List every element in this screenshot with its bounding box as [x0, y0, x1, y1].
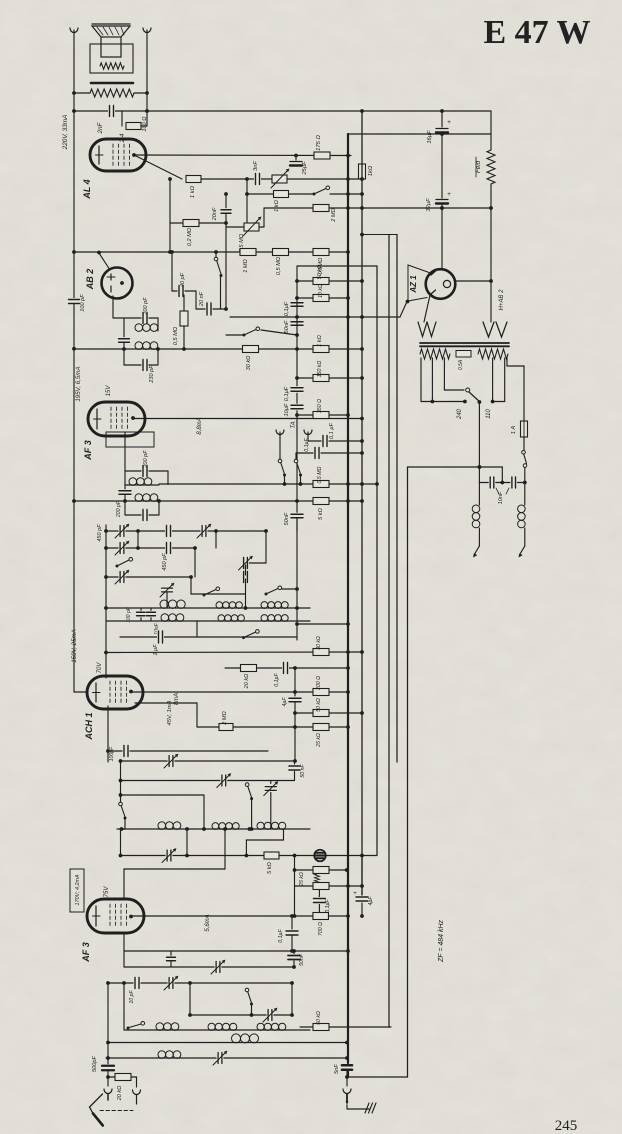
svg-text:240: 240	[457, 408, 463, 420]
zigzag link	[315, 874, 320, 883]
svg-text:25 kΩ: 25 kΩ	[299, 872, 305, 887]
svg-text:15V: 15V	[106, 385, 112, 397]
svg-text:100 pF: 100 pF	[126, 606, 132, 623]
wire row y298	[297, 297, 348, 299]
svg-text:195V, 6,5mA: 195V, 6,5mA	[75, 366, 82, 401]
tuner3 switch horizontal	[123, 983, 125, 1030]
tuner2 switch x247	[245, 783, 249, 787]
svg-text:4µF: 4µF	[368, 896, 374, 906]
capacitor 4µF b	[361, 856, 363, 917]
bus x362	[361, 111, 363, 895]
svg-text:5 kΩ: 5 kΩ	[318, 507, 324, 519]
wire row y967	[124, 966, 294, 968]
capacitor 25µF electrolytic	[295, 156, 297, 161]
resistor 100 Ω	[121, 111, 123, 126]
svg-text:2 MΩ: 2 MΩ	[331, 207, 337, 222]
capacitor 50nF d	[290, 513, 304, 520]
wire row y951	[124, 950, 348, 952]
resistor 150 kΩ	[313, 375, 329, 382]
svg-text:AF 3: AF 3	[83, 440, 93, 461]
resistor 20 kΩ	[241, 665, 257, 672]
resistor 1 kΩ c	[313, 346, 329, 353]
resistor 25 kΩ b	[313, 867, 329, 874]
wire row y484	[159, 483, 377, 485]
svg-text:AZ 1: AZ 1	[409, 275, 418, 294]
svg-text:50 nF: 50 nF	[300, 764, 306, 778]
svg-text:50 kΩ: 50 kΩ	[316, 698, 322, 712]
mains filter choke left	[478, 483, 480, 506]
resistor 1 kΩ row194	[274, 191, 289, 198]
wire row y335 with switch	[226, 334, 244, 336]
capacitor 0,1 µF TA1	[307, 432, 309, 441]
variable cap x270	[270, 781, 272, 784]
svg-text:5nF: 5nF	[334, 1064, 340, 1074]
coil IF1b on row	[135, 342, 143, 350]
svg-text:200 pF: 200 pF	[116, 500, 122, 518]
capacitor osc pad	[242, 571, 249, 584]
svg-text:50 kΩ: 50 kΩ	[317, 264, 323, 280]
capacitor 10nF a	[489, 476, 496, 489]
svg-text:200 pF: 200 pF	[143, 297, 149, 316]
tube AB2	[102, 268, 133, 299]
wire row y870	[295, 869, 347, 871]
capacitor 4µF	[294, 668, 296, 696]
capacitor 2nF	[108, 105, 115, 118]
svg-text:1 A: 1 A	[511, 426, 517, 435]
resistor 700 Ω	[313, 913, 329, 920]
svg-text:0,1µF: 0,1µF	[284, 301, 290, 316]
capacitor 40 pF	[171, 252, 173, 291]
bus x297 upper	[296, 266, 298, 640]
coil C feed link	[283, 829, 285, 840]
tuner1 coil row y608	[106, 607, 310, 609]
capacitor 3nF	[254, 173, 261, 186]
capacitor 0,1µF on x297	[290, 301, 304, 308]
left box edge lower	[73, 501, 75, 692]
wire row y252 screen bus	[74, 251, 348, 253]
resistor 200 Ω	[313, 689, 329, 696]
svg-text:50nF: 50nF	[284, 320, 290, 333]
capacitor 0,1µF g	[318, 890, 320, 917]
taps 110 side	[492, 358, 494, 402]
wire row y349 grid bus	[74, 348, 362, 350]
wire row y1043	[108, 1042, 347, 1044]
wire box top y134	[348, 133, 491, 135]
capacitor 10µF	[290, 404, 304, 411]
capacitor 50nF e	[294, 761, 296, 765]
tuner2 row y855	[121, 855, 378, 857]
mains filter choke right	[524, 483, 526, 506]
capacitor 32µF	[441, 134, 443, 198]
svg-text:+: +	[447, 119, 451, 126]
capacitor 1 µF osc	[120, 636, 297, 638]
resistor 20 kΩ b	[108, 1076, 115, 1078]
resistor 0,5 MΩ vertical	[183, 295, 185, 311]
resistor hum-bucking coil	[90, 89, 134, 97]
svg-text:150V, 25mA: 150V, 25mA	[71, 629, 78, 663]
variable cap y1058	[217, 1052, 224, 1065]
mains voltage taps	[420, 358, 422, 402]
svg-text:50nF: 50nF	[284, 512, 290, 525]
coil y1058	[158, 1051, 166, 1059]
svg-text:+: +	[353, 891, 357, 897]
svg-text:220V, 33mA: 220V, 33mA	[62, 115, 69, 151]
variable cap y590	[161, 587, 174, 594]
svg-text:0,5 MΩ: 0,5 MΩ	[173, 326, 179, 345]
heater line	[230, 316, 400, 318]
tuner3 row y1015	[190, 1014, 292, 1016]
wire row y179	[201, 178, 362, 180]
tuner3 switch x247	[245, 988, 249, 992]
wire mains center	[478, 402, 480, 483]
svg-text:2 MΩ: 2 MΩ	[222, 710, 228, 725]
svg-text:1 kΩ: 1 kΩ	[317, 334, 323, 346]
svg-text:10µF: 10µF	[284, 403, 290, 416]
coil IF1a	[123, 318, 125, 338]
resistor 0,2 MΩ	[183, 220, 199, 227]
ground symbol	[365, 1103, 369, 1113]
wire ACH1 anode y692	[131, 691, 348, 693]
speaker LS	[92, 26, 130, 37]
wire row y624 osc	[297, 623, 348, 625]
svg-text:0,1µF: 0,1µF	[284, 386, 290, 401]
TA input hooks	[276, 430, 284, 435]
switch TA2	[295, 453, 297, 459]
svg-text:0,1 µF: 0,1 µF	[329, 422, 335, 439]
svg-text:500pF: 500pF	[92, 1055, 98, 1071]
resistor 50 kΩ b	[313, 710, 329, 717]
svg-text:ZF = 484 kHz: ZF = 484 kHz	[438, 919, 445, 963]
AF3 IF transformer	[124, 432, 126, 471]
tuner1 row y594	[191, 593, 246, 595]
tuner3 vertical x292	[291, 983, 293, 1015]
switch TA1	[279, 432, 281, 459]
tuner1 switch y563	[116, 565, 119, 568]
resistor 10 kΩ	[313, 295, 329, 302]
svg-text:ACH 1: ACH 1	[84, 712, 94, 740]
heater winding V left	[418, 322, 427, 337]
wire AL4 anode line	[134, 154, 351, 157]
wire row y1027	[300, 1026, 391, 1028]
capacitor 100 pF in left bus	[73, 111, 75, 299]
svg-text:100 Ω: 100 Ω	[142, 116, 148, 132]
svg-text:700 Ω: 700 Ω	[318, 922, 324, 936]
svg-text:TA: TA	[291, 421, 297, 428]
trimmer 0,5 MΩ	[226, 226, 244, 228]
resistor Feld field coil	[490, 111, 492, 150]
wire row y652	[106, 651, 362, 654]
resistor 5 kΩ b	[264, 852, 279, 859]
resistor 50 kΩ	[313, 278, 329, 285]
svg-text:40 pF: 40 pF	[180, 272, 186, 287]
tuner1 row C y577	[106, 576, 191, 578]
wire row y983	[108, 982, 292, 984]
resistor 25 kΩ	[313, 724, 329, 731]
resistor 2 MΩ	[313, 205, 329, 212]
coil wide y1043	[232, 1034, 241, 1043]
label AZ1 flag	[408, 265, 429, 301]
capacitor series IF1	[118, 337, 131, 344]
wire rows y360-430 right block	[297, 377, 362, 379]
svg-text:20nF: 20nF	[212, 207, 218, 221]
resistor 30 kΩ b	[313, 649, 329, 656]
tuner1 row B y548	[106, 547, 195, 549]
tuner2 vertical x187	[186, 829, 188, 855]
capacitor 20 nF b	[195, 291, 197, 309]
mains switch	[522, 451, 526, 455]
svg-text:170V; 4,2mA: 170V; 4,2mA	[75, 874, 81, 905]
resistor 50 kΩ c	[313, 883, 329, 890]
wire row y208	[264, 207, 491, 209]
bus x295 mid	[294, 727, 296, 761]
wire AZ1 anode right	[455, 280, 491, 282]
capacitor 16µF	[441, 111, 443, 127]
wire AF3 anode y418	[133, 418, 362, 420]
svg-text:AL 4: AL 4	[82, 179, 92, 199]
wire AZ1 plate	[441, 208, 443, 269]
svg-text:1 µF: 1 µF	[153, 644, 159, 656]
svg-text:2nF: 2nF	[97, 121, 104, 134]
tuner3 coil row y1030	[124, 1029, 310, 1031]
tube AZ1 rectifier	[426, 269, 456, 299]
svg-text:175 Ω: 175 Ω	[316, 135, 322, 151]
svg-text:16µF: 16µF	[427, 130, 433, 144]
capacitor 230 pF	[123, 349, 125, 365]
svg-text:0,5 MΩ: 0,5 MΩ	[317, 466, 323, 483]
resistor 50 kΩ d	[313, 1024, 329, 1031]
wire filter caps row	[479, 482, 524, 484]
headphone jack	[313, 849, 326, 862]
svg-text:1 kΩ: 1 kΩ	[190, 185, 196, 198]
wire row y223	[170, 222, 226, 224]
capacitor 5nF	[341, 1064, 353, 1072]
bus x377	[376, 266, 378, 856]
svg-text:E 47 W: E 47 W	[483, 14, 590, 51]
tube AF3 first	[88, 402, 145, 436]
wire row y501	[74, 500, 362, 502]
coil B centre tap to AF3 grid	[224, 829, 226, 869]
svg-text:350 Ω: 350 Ω	[317, 399, 323, 413]
label 170V box	[70, 869, 84, 912]
resistor 0,5 MΩ	[273, 249, 289, 256]
svg-text:1 kΩ: 1 kΩ	[274, 199, 280, 211]
svg-text:0,5A: 0,5A	[458, 359, 464, 370]
capacitor 100 pF tuner	[140, 608, 142, 621]
wire row y727	[197, 726, 348, 728]
resistor 1kΩ vertical on bus	[359, 164, 366, 179]
wire row y886	[295, 885, 363, 887]
svg-text:32µF: 32µF	[426, 198, 432, 212]
wire AB2 to IF transformer	[112, 296, 114, 318]
wire AL4 grid/screen to 1kΩ	[134, 155, 182, 179]
wire speaker right lead	[146, 30, 148, 111]
svg-text:0,1µF: 0,1µF	[274, 672, 280, 686]
svg-text:20 kΩ: 20 kΩ	[244, 673, 250, 690]
antenna terminal	[107, 1077, 109, 1086]
svg-text:4µF: 4µF	[282, 697, 288, 707]
svg-text:H+AB 2: H+AB 2	[499, 289, 505, 311]
tuner2 row Q y780	[121, 780, 295, 782]
tube AF3 second	[87, 899, 144, 933]
svg-text:5,6mA: 5,6mA	[205, 914, 211, 931]
svg-text:25 kΩ: 25 kΩ	[316, 733, 322, 748]
bus x348 main	[347, 134, 349, 1063]
bus x397	[396, 235, 398, 763]
svg-text:245: 245	[555, 1118, 578, 1134]
capacitor pair y951-967	[170, 951, 172, 956]
capacitor 0,1µF f	[291, 916, 293, 929]
heater winding V right	[483, 322, 494, 337]
wire row y281	[297, 280, 362, 282]
svg-text:0,1µF: 0,1µF	[325, 898, 331, 912]
resistor 2 MΩ b	[219, 724, 233, 731]
capacitor 10nF tuner	[150, 608, 152, 621]
wire row y194	[247, 193, 314, 195]
capacitor 0,1 µF e	[282, 662, 289, 675]
svg-text:75V: 75V	[104, 886, 110, 898]
antenna symbol	[90, 1094, 103, 1114]
resistor 0,5 MΩ row484	[313, 481, 329, 488]
svg-text:100 pF: 100 pF	[80, 294, 86, 312]
bus top connector	[362, 234, 397, 236]
capacitor 10nF b	[510, 476, 517, 489]
svg-text:1 MΩ: 1 MΩ	[243, 258, 249, 272]
resistor 5 kΩ	[313, 498, 329, 505]
svg-text:1kΩ: 1kΩ	[368, 165, 374, 176]
wire row y668	[225, 667, 348, 669]
wire main B+ line	[74, 110, 491, 112]
transformer primary windings	[420, 349, 450, 359]
svg-text:0,1µF: 0,1µF	[278, 928, 284, 942]
svg-text:10 pF: 10 pF	[129, 990, 135, 1004]
resistor 30 kΩ	[243, 346, 259, 353]
transformer core	[420, 342, 509, 344]
tuner2 left switch	[120, 761, 122, 802]
svg-text:45V, 1mA: 45V, 1mA	[167, 700, 173, 725]
svg-text:0,1µF: 0,1µF	[304, 437, 310, 451]
svg-text:450 pF: 450 pF	[97, 524, 103, 542]
wire row y751 grid2	[107, 706, 109, 762]
wire AF3b anode y916	[131, 915, 348, 917]
tuner2 row y795	[121, 794, 205, 796]
svg-text:3nF: 3nF	[253, 161, 259, 171]
tube AL4	[90, 139, 146, 171]
svg-text:5 kΩ: 5 kΩ	[267, 861, 273, 873]
wire speaker left lead	[73, 30, 75, 111]
capacitor 200 pF	[142, 312, 149, 325]
resistor 1 MΩ	[240, 249, 256, 256]
svg-text:AF 3: AF 3	[81, 942, 91, 963]
svg-text:20 nF: 20 nF	[199, 291, 205, 307]
switch row194	[313, 193, 316, 196]
trimmer resistor	[272, 175, 287, 183]
wire AB2 top	[99, 253, 110, 270]
svg-text:30 kΩ: 30 kΩ	[246, 355, 252, 371]
capacitor 50nF on x297	[290, 320, 304, 327]
tuner2 row P y761	[121, 760, 296, 762]
resistor 1 kΩ	[186, 176, 201, 183]
capacitor 500pF	[101, 1064, 115, 1072]
svg-text:70V: 70V	[97, 662, 103, 674]
svg-text:10 kΩ: 10 kΩ	[318, 284, 324, 298]
svg-text:200 Ω: 200 Ω	[316, 676, 322, 691]
tuner2 coil row y829	[117, 828, 310, 830]
svg-text:30 kΩ: 30 kΩ	[316, 636, 322, 650]
capacitor 0,1µF TA2	[296, 452, 362, 454]
svg-text:200 pF: 200 pF	[143, 450, 149, 469]
tube ACH1	[87, 676, 143, 709]
svg-text:AB 2: AB 2	[85, 269, 95, 291]
svg-text:+: +	[447, 191, 451, 198]
svg-text:150 kΩ: 150 kΩ	[317, 361, 323, 378]
svg-text:20 kΩ: 20 kΩ	[117, 1085, 123, 1102]
resistor 175 Ω	[314, 152, 330, 159]
fuse 1A	[506, 358, 508, 366]
wire row y1058	[106, 1057, 347, 1059]
bus x389	[388, 235, 390, 1028]
switch row y637	[242, 636, 245, 639]
svg-text:50nF: 50nF	[299, 953, 305, 966]
bus x407 from mains	[407, 467, 409, 1077]
tuner1 verticals	[105, 525, 107, 678]
svg-text:230 pF: 230 pF	[149, 365, 155, 384]
svg-text:25µF: 25µF	[302, 161, 308, 176]
wire row y415	[297, 414, 348, 416]
wire ACH1 triode y703	[135, 702, 197, 704]
tap selector arm	[469, 392, 479, 402]
svg-text:110: 110	[486, 409, 492, 419]
svg-text:50 kΩ: 50 kΩ	[316, 1011, 322, 1025]
capacitor 100pF b	[123, 745, 130, 758]
wire row y266	[297, 265, 377, 267]
capacitor 50nF vertical	[293, 951, 295, 954]
capacitor 20nF	[225, 194, 227, 208]
variable cap 450pF osc trimmer	[265, 531, 267, 563]
tuner1 coil row y621	[106, 620, 310, 622]
wire row y713	[295, 712, 362, 714]
svg-text:0,2 MΩ: 0,2 MΩ	[187, 227, 193, 246]
switch at x216	[215, 252, 217, 257]
resistor 0,5 MΩ b	[313, 249, 329, 256]
svg-text:450 pF: 450 pF	[162, 553, 168, 571]
ground terminal chain	[346, 1070, 348, 1077]
svg-text:0,5 MΩ: 0,5 MΩ	[276, 256, 282, 275]
tuner1 row A y531	[106, 530, 266, 532]
wire row y1077 bottom	[347, 1076, 408, 1078]
wire AZ1 filament leads	[424, 295, 430, 322]
svg-text:100pF: 100pF	[109, 746, 115, 762]
wire mains row y467	[408, 466, 503, 468]
resistor 350 Ω	[313, 412, 329, 419]
svg-text:8,8mA: 8,8mA	[197, 417, 203, 434]
vertical x294 cluster	[294, 856, 296, 917]
capacitor 0,1µF c	[290, 386, 304, 393]
